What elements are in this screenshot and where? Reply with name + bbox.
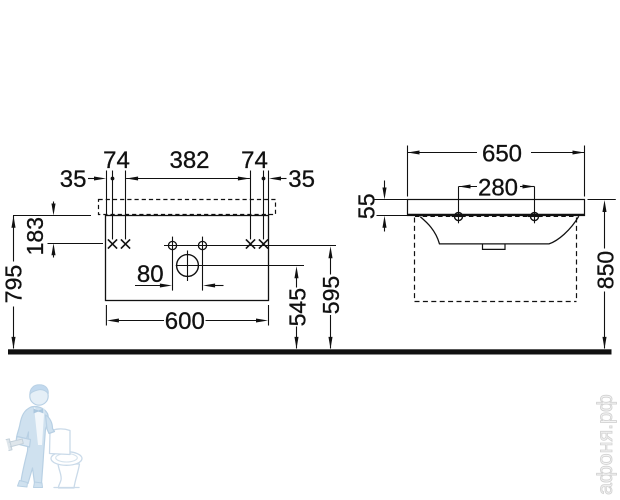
svg-text:595: 595 xyxy=(318,276,344,314)
svg-text:183: 183 xyxy=(22,217,48,255)
svg-text:74: 74 xyxy=(241,147,268,174)
svg-text:афоня.рф: афоня.рф xyxy=(593,394,617,495)
svg-text:545: 545 xyxy=(284,288,310,326)
svg-text:600: 600 xyxy=(165,308,205,335)
svg-text:80: 80 xyxy=(137,261,164,288)
svg-text:850: 850 xyxy=(593,251,619,289)
svg-text:280: 280 xyxy=(478,175,518,202)
svg-text:382: 382 xyxy=(169,147,209,174)
svg-text:74: 74 xyxy=(103,147,130,174)
svg-text:35: 35 xyxy=(288,166,315,193)
svg-text:795: 795 xyxy=(0,265,26,303)
svg-text:35: 35 xyxy=(60,166,87,193)
svg-text:55: 55 xyxy=(353,194,379,220)
svg-text:650: 650 xyxy=(482,141,522,168)
